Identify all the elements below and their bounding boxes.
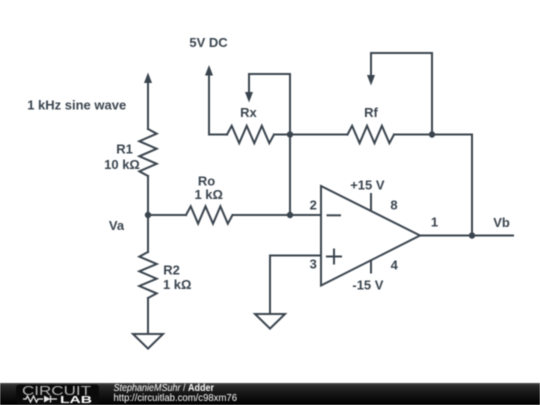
svg-text:1: 1 <box>431 215 438 230</box>
svg-text:10 kΩ: 10 kΩ <box>104 157 140 172</box>
svg-text:Vb: Vb <box>493 215 510 230</box>
svg-text:http://circuitlab.com/c98xm76: http://circuitlab.com/c98xm76 <box>114 393 238 404</box>
svg-text:-15 V: -15 V <box>352 278 383 293</box>
svg-text:2: 2 <box>310 198 317 213</box>
svg-text:R1: R1 <box>116 142 133 157</box>
svg-text:LAB: LAB <box>60 394 93 405</box>
svg-text:Rf: Rf <box>364 105 378 120</box>
svg-text:8: 8 <box>390 198 397 213</box>
svg-text:5V DC: 5V DC <box>189 35 228 50</box>
svg-text:R2: R2 <box>163 263 180 278</box>
svg-text:Rx: Rx <box>240 105 257 120</box>
svg-text:Va: Va <box>109 218 125 233</box>
svg-text:+15 V: +15 V <box>350 178 385 193</box>
svg-text:1 kΩ: 1 kΩ <box>194 187 223 202</box>
svg-text:1 kΩ: 1 kΩ <box>163 277 192 292</box>
svg-text:4: 4 <box>391 258 399 273</box>
svg-text:3: 3 <box>310 257 317 272</box>
svg-text:1 kHz sine wave: 1 kHz sine wave <box>27 98 126 113</box>
